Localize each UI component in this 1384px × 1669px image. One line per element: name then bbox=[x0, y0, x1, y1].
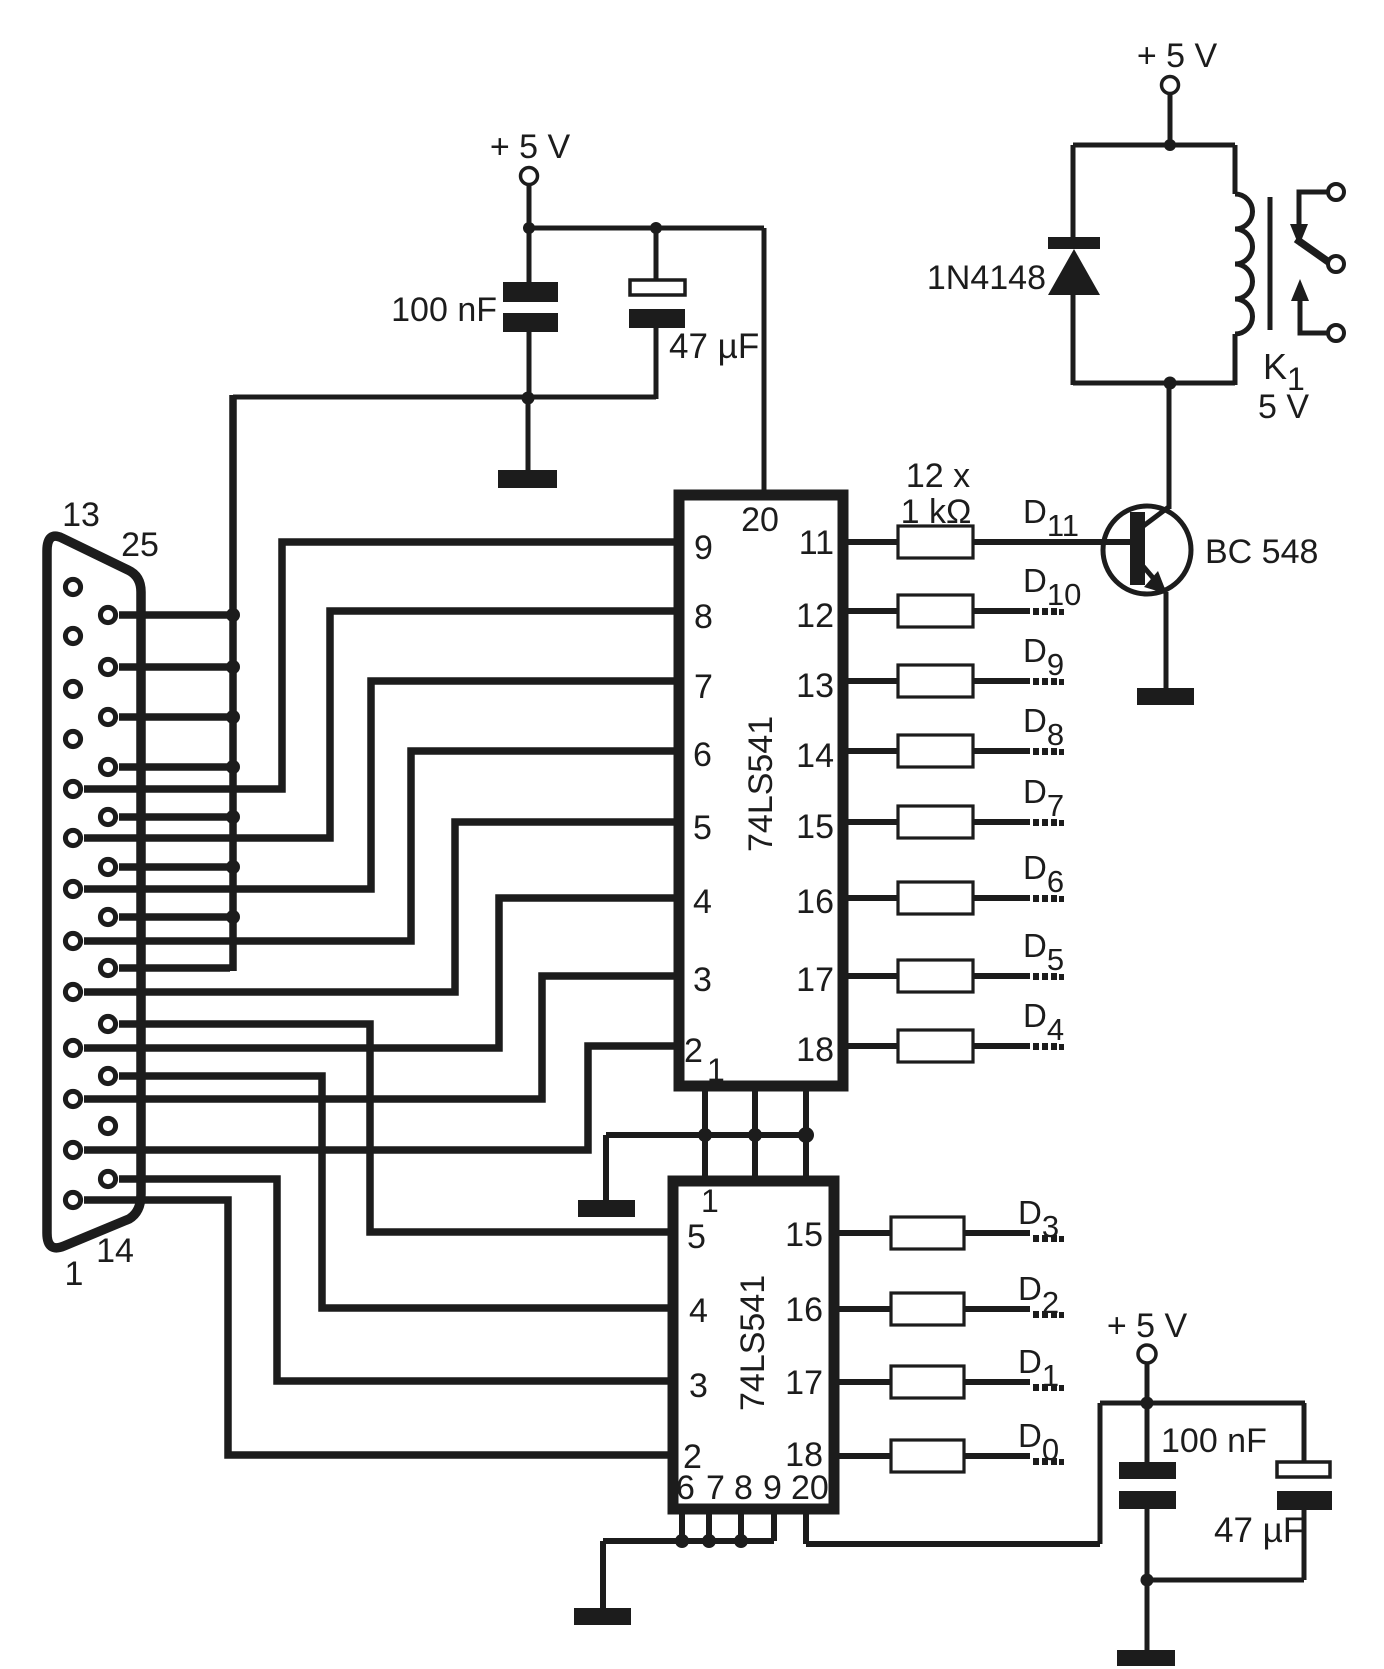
wire: +5V terminal to rail (bottom right) bbox=[1145, 1363, 1150, 1403]
svg-text:6: 6 bbox=[693, 736, 712, 774]
svg-text:3: 3 bbox=[689, 1367, 708, 1405]
dotted continuation net D10 bbox=[1033, 608, 1064, 615]
dotted continuation net D1 bbox=[1033, 1384, 1064, 1391]
wire: C4 top lead bbox=[1302, 1403, 1307, 1463]
wire: C1 bottom lead bbox=[527, 332, 532, 397]
svg-text:D7: D7 bbox=[1023, 773, 1064, 823]
wire: ground rail horizontal (top left) bbox=[233, 395, 656, 400]
wire: U2 pin 7 to ground bus bbox=[706, 1509, 712, 1541]
junction: ground bus / pin 6 bbox=[675, 1534, 689, 1548]
svg-text:47 µF: 47 µF bbox=[669, 327, 759, 366]
wire: U2 pin 20 to +5V riser bbox=[806, 1541, 1100, 1547]
wire: enable bus horizontal bbox=[606, 1132, 806, 1138]
capacitor C1 100nF top plate bbox=[503, 282, 558, 302]
svg-text:74LS541: 74LS541 bbox=[734, 1275, 772, 1411]
CN1 pin 10 hole bbox=[65, 731, 80, 746]
junction: ground rail / C3 bbox=[1141, 1574, 1154, 1587]
junction: pin 20 / ground bus bbox=[226, 860, 240, 874]
wire: CN1 pin 19 to ground bus bbox=[119, 913, 233, 921]
wire: R1 to Q1 base (net D11) bbox=[973, 539, 1131, 545]
dotted continuation net D7 bbox=[1033, 819, 1064, 826]
wire: U1 pin 19 to U2 top bbox=[803, 1086, 809, 1181]
resistor R8 1k bbox=[898, 1030, 973, 1062]
wire: +5V riser (bottom right) bbox=[1098, 1403, 1103, 1544]
svg-text:1: 1 bbox=[707, 1052, 725, 1088]
wire: +5V rail horizontal (bottom right) bbox=[1100, 1401, 1305, 1406]
svg-text:5: 5 bbox=[687, 1218, 706, 1256]
wire: Q1 collector to relay bottom rail bbox=[1167, 383, 1172, 509]
CN1 pin 1 hole bbox=[65, 1192, 80, 1207]
CN1 pin 5 hole bbox=[65, 984, 80, 999]
CN1 pin 3 hole bbox=[65, 1091, 80, 1106]
svg-text:D8: D8 bbox=[1023, 702, 1064, 752]
junction: pin 24 / ground bus bbox=[226, 660, 240, 674]
svg-text:7: 7 bbox=[706, 1469, 725, 1507]
wire: C4 bottom lead bbox=[1302, 1510, 1307, 1580]
CN1 pin 11 hole bbox=[65, 681, 80, 696]
capacitor C4 47uF bottom plate bbox=[1277, 1491, 1332, 1510]
capacitor C2 47uF top plate bbox=[630, 280, 685, 295]
wire: CN1 pin 25 to ground bus bbox=[119, 611, 233, 619]
svg-text:16: 16 bbox=[796, 883, 834, 921]
wire: CN1 pin 21 to ground bus bbox=[119, 813, 233, 821]
wire: CN1 pin 7 to U1 pin 7 bbox=[84, 681, 678, 889]
svg-text:20: 20 bbox=[791, 1469, 829, 1507]
dotted continuation net D8 bbox=[1033, 748, 1064, 755]
wire: U1 pin 11 to R1 bbox=[845, 539, 898, 545]
svg-text:D4: D4 bbox=[1023, 997, 1064, 1047]
wire: +5V rail to U1 pin 20 bbox=[762, 228, 767, 492]
wire: U1 pin 10 to U2 top bbox=[752, 1086, 758, 1181]
CN1 pin 4 hole bbox=[65, 1040, 80, 1055]
IC U2 74LS541 body bbox=[673, 1181, 834, 1509]
svg-text:5 V: 5 V bbox=[1258, 388, 1309, 426]
terminal +5V (top left) bbox=[521, 168, 538, 185]
resistor R12 1k bbox=[891, 1440, 964, 1472]
ground symbol (top left) bbox=[498, 470, 557, 488]
svg-text:12 x: 12 x bbox=[906, 457, 970, 495]
svg-text:18: 18 bbox=[785, 1436, 823, 1474]
capacitor C3 100nF top plate bbox=[1119, 1462, 1176, 1479]
resistor R10 1k bbox=[891, 1293, 964, 1325]
wire: CN1 pin 20 to ground bus bbox=[119, 863, 233, 871]
wire: R11 to net D1 bbox=[964, 1379, 1030, 1385]
diode D1 1N4148 anode triangle bbox=[1048, 249, 1100, 295]
wire: relay top rail bbox=[1073, 143, 1235, 148]
junction: ground rail / C1 bbox=[522, 392, 535, 405]
junction: pin 21 / ground bus bbox=[226, 810, 240, 824]
wire: U1 pin 13 to R3 bbox=[845, 678, 898, 684]
svg-text:100 nF: 100 nF bbox=[391, 291, 497, 329]
junction: rail / C3 bbox=[1141, 1397, 1154, 1410]
wire: CN1 pin 22 to ground bus bbox=[119, 763, 233, 771]
CN1 pin 15 hole bbox=[100, 1118, 115, 1133]
terminal +5V (bottom right) bbox=[1138, 1345, 1156, 1363]
wire: CN1 pin 5 to U1 pin 5 bbox=[84, 822, 678, 992]
wire: U2 pin 6 to ground bus bbox=[679, 1509, 685, 1541]
wire: CN1 pin 1 to U2 pin 2 bbox=[84, 1200, 672, 1455]
resistor R4 1k bbox=[898, 735, 973, 767]
wire: U2 ground bus drop bbox=[600, 1541, 606, 1609]
junction: enable bus / pin19 riser bbox=[798, 1127, 814, 1143]
wire: U1 pin 17 to R7 bbox=[845, 973, 898, 979]
svg-text:3: 3 bbox=[693, 961, 712, 999]
junction: relay bottom rail / Q1 collector bbox=[1164, 377, 1177, 390]
wire: CN1 pin 6 to U1 pin 6 bbox=[84, 751, 678, 941]
svg-text:13: 13 bbox=[796, 667, 834, 705]
resistor R7 1k bbox=[898, 960, 973, 992]
wire: relay bottom rail bbox=[1073, 381, 1235, 386]
wire: R8 to net D4 bbox=[973, 1043, 1030, 1049]
wire: U1 pin 14 to R4 bbox=[845, 748, 898, 754]
relay K1 NO terminal bbox=[1328, 325, 1344, 341]
wire: +5V terminal to relay top rail bbox=[1168, 93, 1173, 145]
wire: R12 to net D0 bbox=[964, 1453, 1030, 1459]
CN1 pin 22 hole bbox=[100, 759, 115, 774]
transistor Q1 BC548 body bbox=[1103, 506, 1191, 594]
wire: CN1 pin 14 to U2 pin 3 bbox=[119, 1179, 672, 1381]
resistor R1 1k bbox=[898, 526, 973, 558]
wire: CN1 pin 24 to ground bus bbox=[119, 663, 233, 671]
junction: enable bus / pin1 riser bbox=[698, 1128, 712, 1142]
svg-text:15: 15 bbox=[785, 1216, 823, 1254]
wire: U2 ground bus horizontal bbox=[603, 1538, 774, 1544]
svg-text:1N4148: 1N4148 bbox=[927, 259, 1046, 297]
wire: U1 pin 1 to U2 top bbox=[702, 1086, 708, 1181]
relay K1 moving contact arrow bbox=[1290, 224, 1308, 246]
capacitor C2 47uF bottom plate bbox=[629, 309, 685, 328]
wire: D1 cathode lead bbox=[1071, 145, 1076, 240]
wire: U2 pin 17 to R11 bbox=[836, 1379, 891, 1385]
wire: ground rail horizontal (bottom right) bbox=[1147, 1578, 1304, 1583]
CN1 pin 7 hole bbox=[65, 881, 80, 896]
junction: pin 25 / ground bus bbox=[226, 608, 240, 622]
wire: U2 pin 15 to R9 bbox=[836, 1230, 891, 1236]
ground symbol (U2) bbox=[574, 1608, 631, 1625]
wire: C3 bottom lead bbox=[1145, 1509, 1150, 1580]
wire: U1 pin 15 to R5 bbox=[845, 819, 898, 825]
junction: ground bus / pin 8 bbox=[734, 1534, 748, 1548]
dotted continuation net D6 bbox=[1033, 895, 1064, 902]
resistor R2 1k bbox=[898, 595, 973, 627]
ground symbol (Q1 emitter) bbox=[1137, 688, 1194, 705]
ground symbol (enable bus) bbox=[578, 1200, 635, 1217]
terminal +5V (relay) bbox=[1162, 77, 1179, 94]
wire: U2 pin 9 to ground bus bbox=[771, 1509, 777, 1541]
svg-text:1: 1 bbox=[65, 1255, 84, 1293]
svg-text:15: 15 bbox=[796, 808, 834, 846]
junction: ground bus / pin 7 bbox=[702, 1534, 716, 1548]
svg-text:+ 5 V: + 5 V bbox=[490, 128, 571, 166]
capacitor C3 100nF bottom plate bbox=[1119, 1491, 1176, 1509]
capacitor C1 100nF bottom plate bbox=[503, 313, 558, 332]
junction: rail / C1 bbox=[523, 222, 535, 234]
wire: Q1 emitter to ground bbox=[1164, 592, 1169, 690]
wire: U1 pin 16 to R6 bbox=[845, 895, 898, 901]
svg-text:47 µF: 47 µF bbox=[1214, 1511, 1304, 1550]
svg-text:2: 2 bbox=[684, 1032, 703, 1070]
resistor R6 1k bbox=[898, 882, 973, 914]
relay K1 armature line bbox=[1268, 197, 1273, 330]
wire: CN1 pin 23 to ground bus bbox=[119, 713, 233, 721]
wire: C1 top lead bbox=[527, 228, 532, 284]
wire: R6 to net D6 bbox=[973, 895, 1030, 901]
svg-text:4: 4 bbox=[689, 1292, 708, 1330]
wire: C2 top lead bbox=[654, 228, 659, 280]
resistor R11 1k bbox=[891, 1366, 964, 1398]
wire: CN1 pin 8 to U1 pin 8 bbox=[84, 611, 678, 838]
CN1 pin 18 hole bbox=[100, 960, 115, 975]
relay K1 common terminal bbox=[1328, 184, 1344, 200]
wire: C2 bottom lead bbox=[654, 328, 659, 399]
wire: ground stub (bottom right) bbox=[1145, 1580, 1150, 1651]
wire: U2 pin 18 to R12 bbox=[836, 1453, 891, 1459]
relay K1 NO contact stem bbox=[1300, 297, 1328, 333]
wire: CN1 pin 17 to U2 pin 5 bbox=[119, 1024, 672, 1232]
wire: CN1 pin 18 to ground bus end bbox=[119, 964, 230, 972]
svg-text:9: 9 bbox=[694, 529, 713, 567]
wire: R2 to net D10 bbox=[973, 608, 1030, 614]
dotted continuation net D3 bbox=[1033, 1235, 1064, 1242]
dotted continuation net D0 bbox=[1033, 1458, 1064, 1465]
wire: U2 pin 16 to R10 bbox=[836, 1306, 891, 1312]
svg-text:BC 548: BC 548 bbox=[1205, 533, 1318, 571]
IC U1 74LS541 body bbox=[679, 495, 843, 1086]
svg-text:7: 7 bbox=[694, 668, 713, 706]
svg-text:4: 4 bbox=[693, 883, 712, 921]
svg-text:+ 5 V: + 5 V bbox=[1107, 1307, 1188, 1345]
svg-text:14: 14 bbox=[796, 737, 834, 775]
svg-text:D11: D11 bbox=[1023, 493, 1079, 543]
resistor R9 1k bbox=[891, 1217, 964, 1249]
wire: enable bus to ground bbox=[603, 1135, 609, 1201]
connector CN1 DB25 shell bbox=[47, 536, 141, 1248]
wire: U2 pin 20 drop bbox=[803, 1509, 809, 1544]
wire: CN1 pin 2 to U1 pin 2 bbox=[84, 1046, 678, 1150]
dotted continuation net D5 bbox=[1033, 973, 1064, 980]
wire: R9 to net D3 bbox=[964, 1230, 1030, 1236]
junction: pin 23 / ground bus bbox=[226, 710, 240, 724]
junction: pin 19 / ground bus bbox=[226, 910, 240, 924]
svg-text:13: 13 bbox=[62, 496, 100, 534]
relay K1 moving contact blade bbox=[1296, 239, 1330, 263]
dotted continuation net D2 bbox=[1033, 1311, 1064, 1318]
svg-text:25: 25 bbox=[121, 526, 159, 564]
CN1 pin 19 hole bbox=[100, 909, 115, 924]
svg-text:6: 6 bbox=[676, 1469, 695, 1507]
CN1 pin 14 hole bbox=[100, 1171, 115, 1186]
CN1 pin 13 hole bbox=[65, 579, 80, 594]
dotted continuation net D9 bbox=[1033, 678, 1064, 685]
wire: U1 pin 18 to R8 bbox=[845, 1043, 898, 1049]
wire: CN1 pin 4 to U1 pin 4 bbox=[84, 898, 678, 1048]
svg-text:11: 11 bbox=[799, 524, 834, 562]
junction: pin 22 / ground bus bbox=[226, 760, 240, 774]
resistor R5 1k bbox=[898, 806, 973, 838]
wire: CN1 pin 16 to U2 pin 4 bbox=[119, 1076, 672, 1308]
svg-text:1: 1 bbox=[701, 1183, 719, 1219]
CN1 pin 12 hole bbox=[65, 628, 80, 643]
capacitor C4 47uF top plate bbox=[1277, 1462, 1330, 1477]
resistor R3 1k bbox=[898, 665, 973, 697]
CN1 pin 17 hole bbox=[100, 1016, 115, 1031]
svg-text:+ 5 V: + 5 V bbox=[1137, 37, 1218, 75]
CN1 pin 16 hole bbox=[100, 1068, 115, 1083]
wire: R3 to net D9 bbox=[973, 678, 1030, 684]
wire: +5V rail horizontal (top left) bbox=[527, 226, 764, 231]
wire: relay coil top lead bbox=[1233, 145, 1238, 194]
CN1 pin 9 hole bbox=[65, 781, 80, 796]
wire: D1 anode lead bbox=[1071, 293, 1076, 385]
CN1 pin 8 hole bbox=[65, 830, 80, 845]
wire: U1 pin 12 to R2 bbox=[845, 608, 898, 614]
svg-text:12: 12 bbox=[796, 597, 834, 635]
Q1 emitter lead bbox=[1142, 565, 1166, 593]
relay K1 moving contact stem bbox=[1299, 192, 1328, 228]
junction: +5V / relay top rail bbox=[1164, 139, 1176, 151]
svg-text:16: 16 bbox=[785, 1291, 823, 1329]
wire: +5V terminal down to rail bbox=[527, 184, 532, 228]
relay K1 coil bbox=[1235, 194, 1253, 334]
wire: relay coil bottom lead bbox=[1233, 334, 1238, 385]
wire: ground stub below C1 bbox=[526, 397, 531, 471]
diode D1 1N4148 cathode bar bbox=[1048, 237, 1100, 249]
CN1 pin 24 hole bbox=[100, 659, 115, 674]
wire: R5 to net D7 bbox=[973, 819, 1030, 825]
relay K1 NC terminal bbox=[1328, 256, 1344, 272]
dotted continuation net D4 bbox=[1033, 1043, 1064, 1050]
ground symbol (bottom right) bbox=[1117, 1650, 1175, 1666]
CN1 pin 23 hole bbox=[100, 709, 115, 724]
svg-text:17: 17 bbox=[785, 1364, 823, 1402]
svg-text:D5: D5 bbox=[1023, 927, 1064, 977]
wire: R7 to net D5 bbox=[973, 973, 1030, 979]
junction: rail / C2 bbox=[650, 222, 662, 234]
svg-text:5: 5 bbox=[693, 809, 712, 847]
svg-text:9: 9 bbox=[763, 1469, 782, 1507]
wire: R10 to net D2 bbox=[964, 1306, 1030, 1312]
CN1 pin 25 hole bbox=[100, 607, 115, 622]
svg-text:14: 14 bbox=[96, 1232, 134, 1270]
junction: enable bus / pin10 riser bbox=[748, 1128, 762, 1142]
CN1 pin 20 hole bbox=[100, 859, 115, 874]
Q1 base bar bbox=[1130, 512, 1145, 585]
svg-text:D10: D10 bbox=[1023, 562, 1081, 612]
Q1 collector lead bbox=[1142, 506, 1170, 527]
wire: C3 top lead bbox=[1145, 1403, 1150, 1463]
svg-text:100 nF: 100 nF bbox=[1161, 1422, 1267, 1460]
wire: CN1 pin 3 to U1 pin 3 bbox=[84, 976, 678, 1099]
relay K1 NO contact arrow bbox=[1291, 279, 1309, 301]
Q1 emitter arrow bbox=[1144, 571, 1167, 594]
svg-text:8: 8 bbox=[694, 598, 713, 636]
svg-text:20: 20 bbox=[741, 501, 779, 539]
CN1 pin 6 hole bbox=[65, 933, 80, 948]
wire: ground bus vertical to CN1 pins 18-25 bbox=[229, 395, 237, 971]
svg-text:17: 17 bbox=[796, 961, 834, 999]
wire: CN1 pin 9 to U1 pin 9 bbox=[84, 542, 678, 789]
CN1 pin 21 hole bbox=[100, 809, 115, 824]
CN1 pin 2 hole bbox=[65, 1142, 80, 1157]
svg-text:8: 8 bbox=[734, 1469, 753, 1507]
svg-text:D6: D6 bbox=[1023, 849, 1064, 899]
svg-text:D9: D9 bbox=[1023, 632, 1064, 682]
svg-text:18: 18 bbox=[796, 1031, 834, 1069]
svg-text:74LS541: 74LS541 bbox=[742, 716, 780, 852]
wire: R4 to net D8 bbox=[973, 748, 1030, 754]
wire: U2 pin 8 to ground bus bbox=[738, 1509, 744, 1541]
